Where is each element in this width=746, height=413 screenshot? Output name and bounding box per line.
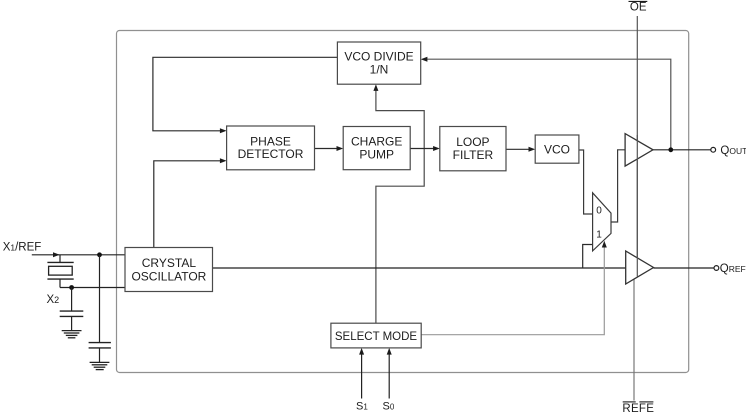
- wire: feedback from Qout node up and left into VCO DIVIDE: [427, 59, 671, 149]
- buffer A2 (QREF): [626, 251, 654, 284]
- wire: crystal oscillator top to phase detector lower input: [154, 161, 220, 248]
- capacitor C2 lower stub: [99, 348, 101, 362]
- block: PHASE DETECTOR: [227, 126, 315, 170]
- svg-text:CRYSTAL: CRYSTAL: [142, 256, 197, 270]
- crystal Y1: bottom plate: [47, 278, 73, 280]
- wire: OE vertical line: [636, 16, 638, 277]
- svg-text:S0: S0: [383, 401, 395, 413]
- svg-text:VCO: VCO: [544, 142, 570, 156]
- block: VCO DIVIDE 1/N: [337, 42, 420, 84]
- wire: charge pump output to loop filter: [410, 148, 433, 150]
- svg-text:VCO DIVIDE: VCO DIVIDE: [344, 50, 413, 64]
- node: junction dot on QOUT net: [668, 147, 673, 152]
- wire: X1/REF input line: [32, 254, 125, 256]
- wire: N-control from SELECT MODE up around charge pump to VCO DIVIDE: [376, 91, 424, 324]
- svg-text:QOUT: QOUT: [720, 145, 746, 157]
- crystal Y1: top plate: [47, 261, 73, 263]
- arrowhead into charge pump: [337, 146, 344, 151]
- wire: X2 line: [60, 287, 125, 289]
- wire: main line crystal oscillator output to QREF buffer: [213, 267, 626, 269]
- block: CHARGE PUMP: [343, 127, 410, 170]
- block: CRYSTAL OSCILLATOR: [125, 248, 213, 292]
- svg-text:DETECTOR: DETECTOR: [238, 147, 304, 161]
- wire: branch from main line to mux input 1: [583, 245, 593, 269]
- svg-text:FILTER: FILTER: [453, 148, 494, 162]
- arrowhead S1 into SELECT MODE: [359, 348, 364, 355]
- mux M1: [593, 193, 611, 251]
- capacitor C2 (X1 leg): vertical: [99, 255, 101, 343]
- ground GND2: [90, 362, 110, 369]
- wire: OE line through buffers (drawn over): [636, 135, 638, 277]
- wire: select mode output right and up to mux select: [421, 247, 604, 335]
- wire: QREF buffer output to pad: [654, 267, 714, 269]
- svg-text:1: 1: [596, 230, 602, 241]
- svg-text:1/N: 1/N: [370, 63, 389, 77]
- svg-text:0: 0: [596, 206, 602, 217]
- arrowhead into phase detector upper input: [220, 128, 227, 133]
- wire: mux output up to QOUT buffer input: [611, 150, 625, 222]
- arrowhead into loop filter: [433, 146, 440, 151]
- wire: REFE vertical line: [633, 278, 635, 401]
- wire: phase detector output to charge pump: [315, 148, 338, 150]
- crystal Y1: bottom stub: [59, 279, 61, 287]
- capacitor C1 plates: [60, 310, 84, 312]
- capacitor C1 lower stub: [71, 316, 73, 330]
- wire: S0 input: [388, 354, 390, 398]
- arrowhead into VCO: [529, 147, 536, 152]
- ground GND1: [62, 331, 82, 338]
- crystal Y1: top stub: [59, 255, 61, 263]
- svg-text:QREF: QREF: [720, 263, 746, 275]
- block: LOOP FILTER: [440, 127, 506, 171]
- capacitor C2 plates: [89, 342, 111, 344]
- buffer A1 (QOUT): [625, 134, 653, 167]
- wire: QOUT buffer output to pad: [653, 149, 711, 151]
- svg-text:OSCILLATOR: OSCILLATOR: [131, 269, 206, 283]
- svg-text:SELECT MODE: SELECT MODE: [335, 331, 418, 343]
- block: VCO: [535, 135, 579, 163]
- capacitor C1 (X2 leg): stub: [71, 288, 73, 312]
- block: SELECT MODE: [331, 323, 421, 348]
- terminal circle QREF: [714, 266, 719, 271]
- node: junction dot X1 line: [97, 252, 102, 257]
- svg-text:S1: S1: [356, 401, 368, 413]
- svg-text:OE: OE: [630, 1, 647, 13]
- arrowhead up into mux select: [602, 241, 607, 248]
- arrowhead on X1/REF line: [53, 252, 60, 257]
- svg-text:PUMP: PUMP: [359, 147, 394, 161]
- svg-text:REFE: REFE: [622, 403, 654, 413]
- wire: VCO DIVIDE left to phase detector upper input: [153, 57, 338, 131]
- arrowhead up into VCO DIVIDE bottom: [373, 84, 378, 91]
- wire: loop filter output to VCO: [506, 148, 529, 150]
- svg-text:X2: X2: [47, 294, 60, 306]
- wire: VCO output down to mux input 0: [579, 150, 593, 214]
- node: junction dot X2 line: [69, 285, 74, 290]
- terminal circle QOUT: [711, 147, 716, 152]
- svg-text:X1/REF: X1/REF: [3, 242, 42, 254]
- arrowhead into VCO DIVIDE right edge: [421, 57, 428, 62]
- crystal Y1: body: [49, 266, 73, 275]
- arrowhead into phase detector lower input: [220, 158, 227, 163]
- chip outline U1: [117, 31, 689, 373]
- arrowhead S0 into SELECT MODE: [387, 348, 392, 355]
- wire: S1 input: [361, 354, 363, 398]
